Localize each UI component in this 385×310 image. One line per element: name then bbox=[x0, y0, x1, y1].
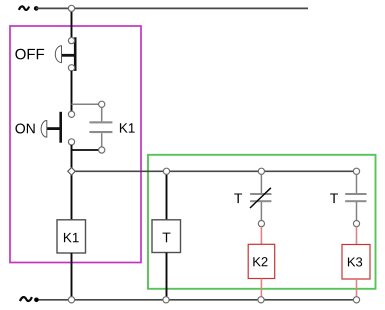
label K1 (contact) bbox=[120, 123, 135, 132]
node on top rail bbox=[68, 5, 74, 11]
node below timer contact (K3 branch) bbox=[353, 221, 359, 227]
wire contact to node (K3 branch) bbox=[356, 202, 358, 221]
timer output frame (green box) bbox=[148, 155, 376, 289]
pushbutton OFF (normally closed) bbox=[55, 37, 76, 71]
junction dot top supply bbox=[34, 6, 39, 11]
node bus K2 branch bbox=[258, 168, 264, 174]
node parallel branch bottom bbox=[99, 147, 105, 153]
wire K3 branch to timer contact bbox=[356, 174, 358, 193]
wire coil K1 to bottom rail bbox=[71, 253, 73, 300]
wire top rail node to OFF button bbox=[71, 8, 73, 40]
wire top supply rail bbox=[36, 7, 308, 9]
label OFF bbox=[15, 49, 44, 60]
timer contact T normally-closed (plates with slash) bbox=[250, 188, 271, 208]
node junction main branch / bus (diamond) bbox=[68, 168, 76, 176]
timer contact T normally-open (plates) bbox=[345, 193, 366, 202]
coil K2 bbox=[248, 244, 275, 278]
wire red coil K2 to bottom rail bbox=[260, 279, 262, 300]
node bus T branch bbox=[163, 168, 169, 174]
pushbutton ON (normally open) bbox=[41, 111, 74, 145]
wire T branch lower bbox=[166, 253, 168, 300]
wire bottom supply rail bbox=[36, 299, 357, 301]
wire T branch upper bbox=[166, 171, 168, 220]
wire red coil K3 to bottom rail bbox=[356, 279, 358, 300]
wire contact to node (K2 branch) bbox=[260, 202, 262, 221]
wire red to coil K3 bbox=[356, 227, 358, 245]
node bottom rail K3 branch bbox=[353, 297, 359, 303]
label T (K2 branch) bbox=[234, 193, 242, 203]
node parallel branch top bbox=[99, 101, 105, 107]
node bottom rail K2 branch bbox=[258, 297, 264, 303]
wire K2 branch to timer contact bbox=[260, 174, 262, 193]
node bus K3 branch bbox=[353, 168, 359, 174]
contact K1 (holding contact plates) bbox=[89, 121, 112, 133]
wire OFF to ON bbox=[71, 71, 73, 112]
label ON bbox=[15, 124, 34, 134]
control circuit frame (magenta box) bbox=[10, 26, 141, 263]
wire horizontal bus bbox=[72, 170, 357, 172]
wire red to coil K2 bbox=[260, 227, 262, 245]
wire contact bottom to main branch bbox=[72, 149, 102, 151]
wire main branch ON to coil K1 bbox=[71, 145, 73, 220]
junction dot bottom supply bbox=[34, 298, 39, 303]
node below timer contact (K2 branch) bbox=[258, 221, 264, 227]
node bottom rail K1 branch bbox=[68, 297, 74, 303]
wire gray parallel branch top bbox=[72, 104, 102, 121]
wire gray parallel branch bottom bbox=[101, 133, 103, 150]
coil T (timer) bbox=[152, 220, 181, 253]
coil K3 bbox=[342, 245, 370, 280]
node bottom rail T branch bbox=[163, 297, 169, 303]
phase symbol ~ top supply bbox=[19, 6, 29, 10]
label T (K3 branch) bbox=[330, 193, 338, 203]
coil K1 bbox=[57, 220, 86, 253]
phase symbol ~ bottom supply bbox=[20, 297, 32, 301]
